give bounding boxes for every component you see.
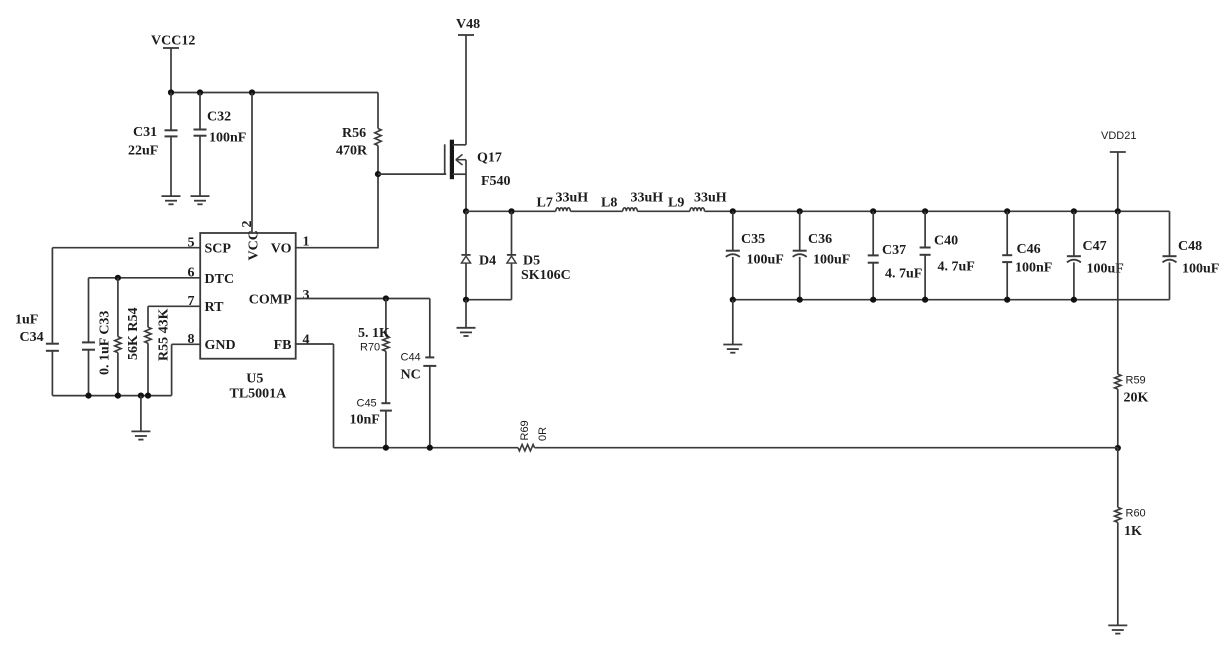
svg-text:VDD21: VDD21 <box>1101 130 1136 142</box>
svg-text:R60: R60 <box>1126 508 1146 520</box>
wire GND pin8 <box>172 343 201 345</box>
transistor Q17 source stub <box>453 173 467 175</box>
node junction C40 bottom <box>922 297 928 303</box>
resistor R54 <box>115 337 121 353</box>
capacitor C46 <box>1002 254 1012 256</box>
node junction divider <box>1115 445 1121 451</box>
wire C31 top <box>170 93 172 131</box>
svg-text:1K: 1K <box>1124 524 1142 539</box>
wire VCC12 rail <box>171 92 378 94</box>
wire DTC pin6 <box>89 277 201 279</box>
ground C31 <box>162 195 181 197</box>
node junction R54 top <box>115 275 121 281</box>
wire cap bank bottom rail <box>733 299 1170 301</box>
wire R59 to node <box>1117 389 1119 448</box>
svg-text:C44: C44 <box>401 352 421 364</box>
svg-text:4: 4 <box>303 333 310 348</box>
wire R70 top <box>385 299 387 337</box>
svg-text:4. 7uF: 4. 7uF <box>938 260 975 275</box>
svg-text:0R: 0R <box>537 427 549 441</box>
wire C31 bottom <box>170 136 172 196</box>
svg-text:NC: NC <box>401 368 421 383</box>
wire C35 gnd stem <box>732 300 734 345</box>
svg-text:U5: U5 <box>246 372 263 387</box>
capacitor C35 <box>726 250 740 252</box>
svg-text:C45: C45 <box>357 398 377 410</box>
wire C46 bottom <box>1006 262 1008 300</box>
svg-text:C35: C35 <box>741 232 765 247</box>
svg-text:V48: V48 <box>456 17 480 32</box>
node junction gnd stem <box>138 393 144 399</box>
node junction C46 bottom <box>1004 297 1010 303</box>
svg-text:C47: C47 <box>1083 239 1107 254</box>
node junction C36 bottom <box>797 297 803 303</box>
capacitor C47 <box>1067 255 1081 257</box>
transistor Q17 drain stub <box>453 144 467 146</box>
node junction source <box>463 208 469 214</box>
resistor R55 <box>145 327 151 343</box>
inductor L9 <box>690 208 705 211</box>
diode D4 <box>461 254 470 256</box>
wire C37 top <box>872 211 874 255</box>
transistor Q17 channel bar <box>450 140 454 180</box>
svg-text:33uH: 33uH <box>694 191 727 206</box>
capacitor C34 <box>46 343 59 345</box>
wire D4 bottom <box>465 263 467 300</box>
svg-text:100nF: 100nF <box>1015 261 1052 276</box>
inductor L7 <box>556 208 571 211</box>
node junction C35 bottom <box>730 297 736 303</box>
wire FB pin4 <box>295 343 334 345</box>
svg-text:TL5001A: TL5001A <box>230 387 288 402</box>
capacitor C32 <box>194 129 207 131</box>
wire VO to R56 <box>295 247 378 249</box>
capacitor C48 <box>1163 255 1177 257</box>
svg-text:R56: R56 <box>342 126 366 141</box>
svg-text:22uF: 22uF <box>128 144 158 159</box>
svg-text:SCP: SCP <box>205 242 232 257</box>
wire R70 to C45 <box>385 351 387 403</box>
svg-text:VO: VO <box>271 242 292 257</box>
ground R60 <box>1108 624 1127 626</box>
wire C48 bottom <box>1169 262 1171 299</box>
wire C35 bottom <box>732 257 734 300</box>
power symbol V48 <box>458 34 474 36</box>
wire C36 top <box>799 211 801 250</box>
wire R54 top <box>117 278 119 337</box>
wire C45 bottom <box>385 411 387 448</box>
ground D4 D5 <box>457 327 476 329</box>
wire VDD21 to R59 <box>1117 211 1119 374</box>
svg-text:D5: D5 <box>523 254 540 269</box>
svg-text:470R: 470R <box>336 144 368 159</box>
svg-text:C32: C32 <box>207 110 231 125</box>
wire R60 to gnd <box>1117 522 1119 625</box>
svg-text:R70: R70 <box>360 342 380 354</box>
wire VCC pin 2 <box>251 93 253 234</box>
node junction C47 bottom <box>1071 297 1077 303</box>
capacitor C37 <box>868 254 879 256</box>
svg-text:FB: FB <box>274 338 292 353</box>
svg-text:4. 7uF: 4. 7uF <box>885 267 922 282</box>
svg-text:F540: F540 <box>481 174 511 189</box>
ground C35 <box>723 344 742 346</box>
svg-text:C34: C34 <box>20 330 44 345</box>
wire gate <box>378 173 446 175</box>
svg-text:R59: R59 <box>1126 375 1146 387</box>
node junction C35 top <box>730 208 736 214</box>
ground C32 <box>191 195 210 197</box>
node junction R70 <box>383 295 389 301</box>
svg-text:20K: 20K <box>1124 391 1149 406</box>
node junction C40 top <box>922 208 928 214</box>
wire C44 top <box>429 299 431 358</box>
wire C47 top <box>1073 211 1075 256</box>
wire gnd stem <box>140 396 142 432</box>
resistor R70 <box>383 336 389 351</box>
svg-text:VCC12: VCC12 <box>151 34 195 49</box>
node junction C45 <box>383 445 389 451</box>
svg-text:5. 1K: 5. 1K <box>358 326 390 341</box>
node junction C31 <box>168 89 174 95</box>
wire L9 to C35 <box>705 210 733 212</box>
node junction C37 top <box>870 208 876 214</box>
svg-text:C37: C37 <box>882 243 906 258</box>
wire Q17 source <box>465 160 467 212</box>
wire C33 bottom <box>88 350 90 396</box>
svg-text:1: 1 <box>303 235 310 250</box>
wire C40 bottom <box>924 255 926 300</box>
transistor Q17 body arrow <box>456 159 466 161</box>
svg-text:C36: C36 <box>808 232 832 247</box>
svg-text:100uF: 100uF <box>1182 262 1219 277</box>
svg-text:SK106C: SK106C <box>521 268 571 283</box>
wire node to L7 <box>466 210 556 212</box>
node junction VDD21 <box>1115 208 1121 214</box>
wire C48 top <box>1169 211 1171 256</box>
node junction gate <box>375 171 381 177</box>
wire L7 to L8 <box>570 210 622 212</box>
node junction C44 <box>427 445 433 451</box>
svg-text:100nF: 100nF <box>209 131 246 146</box>
wire C32 bottom <box>199 136 201 196</box>
wire C46 top <box>1006 211 1008 255</box>
wire FB row right <box>535 447 1118 449</box>
resistor R60 <box>1115 507 1121 522</box>
resistor R56 <box>375 129 381 146</box>
node junction C46 top <box>1004 208 1010 214</box>
svg-text:R69: R69 <box>519 420 531 440</box>
node junction D4 gnd <box>463 297 469 303</box>
node junction R55 bottom <box>145 393 151 399</box>
wire R56 top <box>377 93 379 129</box>
wire COMP pin3 <box>295 298 430 300</box>
wire divider to R60 <box>1117 448 1119 507</box>
power symbol VDD21 <box>1110 151 1126 153</box>
wire D5 top <box>511 211 513 255</box>
wire C44 bottom <box>429 366 431 448</box>
node junction C36 top <box>797 208 803 214</box>
node junction C33 bottom <box>85 393 91 399</box>
svg-text:C40: C40 <box>934 234 958 249</box>
node junction R54 bottom <box>115 393 121 399</box>
svg-text:3: 3 <box>303 288 310 303</box>
svg-text:100uF: 100uF <box>813 252 850 267</box>
capacitor C44 <box>425 356 434 358</box>
svg-text:VCC: VCC <box>247 230 262 260</box>
wire C36 bottom <box>799 257 801 300</box>
node junction pin2 <box>249 89 255 95</box>
svg-text:10nF: 10nF <box>350 413 380 428</box>
svg-text:L7: L7 <box>537 196 553 211</box>
wire D4-D5 join <box>466 299 512 301</box>
wire C40 top <box>924 211 926 247</box>
wire SCP pin5 <box>52 247 200 249</box>
wire C35 top <box>732 211 734 250</box>
wire C32 top <box>199 93 201 130</box>
wire C37 bottom <box>872 263 874 300</box>
svg-text:GND: GND <box>205 338 236 353</box>
svg-text:RT: RT <box>205 300 225 315</box>
wire D4 top <box>465 211 467 255</box>
ground U5 <box>131 430 150 432</box>
svg-text:Q17: Q17 <box>477 151 502 166</box>
svg-text:C46: C46 <box>1017 242 1041 257</box>
diode D5 <box>507 254 516 256</box>
node junction C32 <box>197 89 203 95</box>
capacitor C45 <box>381 402 390 404</box>
svg-text:33uH: 33uH <box>556 191 589 206</box>
transistor Q17 gate plate <box>444 144 446 174</box>
svg-text:L9: L9 <box>668 196 684 211</box>
svg-text:C31: C31 <box>133 125 157 140</box>
svg-text:56K R54: 56K R54 <box>126 308 141 361</box>
IC U5 body <box>200 233 296 359</box>
svg-text:0. 1uF C33: 0. 1uF C33 <box>98 311 113 375</box>
svg-text:DTC: DTC <box>205 272 235 287</box>
svg-text:D4: D4 <box>479 254 496 269</box>
wire RT pin7 <box>148 305 200 307</box>
wire left bottom rail <box>52 395 171 397</box>
svg-text:R55 43K: R55 43K <box>157 308 172 361</box>
wire R56 bottom <box>377 146 379 249</box>
node junction C47 top <box>1071 208 1077 214</box>
capacitor C36 <box>793 250 807 252</box>
svg-text:2: 2 <box>240 221 255 228</box>
svg-text:L8: L8 <box>601 196 617 211</box>
inductor L8 <box>623 208 638 211</box>
resistor R59 <box>1115 374 1121 389</box>
capacitor C33 <box>82 341 95 343</box>
svg-text:33uH: 33uH <box>631 191 664 206</box>
wire R55 bottom <box>147 343 149 395</box>
svg-text:100uF: 100uF <box>747 252 784 267</box>
power symbol VCC12 <box>163 47 179 49</box>
wire C47 bottom <box>1073 262 1075 299</box>
svg-text:1uF: 1uF <box>15 313 38 328</box>
node junction C37 bottom <box>870 297 876 303</box>
node junction D5 <box>508 208 514 214</box>
wire D4 gnd stem <box>465 300 467 328</box>
wire L8 to L9 <box>637 210 690 212</box>
wire D5 bottom <box>511 263 513 300</box>
capacitor C31 <box>165 129 178 131</box>
capacitor C40 <box>920 247 931 249</box>
svg-text:COMP: COMP <box>249 293 292 308</box>
resistor R69 <box>518 445 535 451</box>
wire C34 bottom <box>51 351 53 396</box>
wire FB row left <box>334 447 519 449</box>
wire R54 bottom <box>117 353 119 396</box>
wire output rail <box>733 210 1170 212</box>
svg-text:C48: C48 <box>1178 239 1202 254</box>
